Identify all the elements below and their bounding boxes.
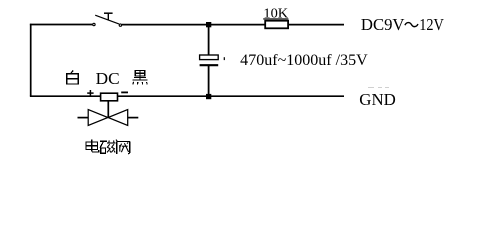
svg-text:DC9V: DC9V [361,15,405,34]
wire: top rail, corner to switch left terminal [30,24,92,26]
minus sign (- terminal) [121,91,128,93]
svg-text:12V: 12V [419,15,444,34]
wire: top node down to capacitor [208,25,210,56]
resistor R 10K body [265,21,288,29]
svg-text:470uf~1000uf /35V: 470uf~1000uf /35V [240,52,368,69]
wire: resistor to right end [288,24,344,26]
plus sign (+ terminal) [87,90,93,96]
capacitor polarity tick [223,57,225,60]
svg-text:10K: 10K [263,5,288,20]
valve left triangle [88,110,108,126]
wire: connector box down to valve [107,101,109,118]
label 磁 [100,141,107,153]
junction dot: top node [206,22,211,27]
capacitor C (polarized) top plate [200,55,219,60]
DC connector box on GND rail [101,93,118,101]
wire: valve right stub [128,117,139,119]
junction dot: bottom node [206,94,211,99]
wire: capacitor to bottom node [208,65,210,96]
switch S (push-button, normally open) [93,13,122,26]
label 黑 (black lead) [132,70,147,84]
label 阀 [117,142,130,155]
wire: switch to resistor [122,24,265,26]
label 电 (of 电磁阀 solenoid valve) [86,140,99,152]
wire: valve left stub [78,117,89,119]
faint artifact dashes [368,87,389,89]
label 白 (white lead) [67,70,79,84]
valve right triangle [108,110,128,126]
wire: left rail vertical [30,24,32,97]
svg-text:DC: DC [96,69,120,88]
wire: GND rail [30,95,344,97]
svg-text:GND: GND [359,90,396,109]
capacitor C bottom plate [200,64,219,66]
